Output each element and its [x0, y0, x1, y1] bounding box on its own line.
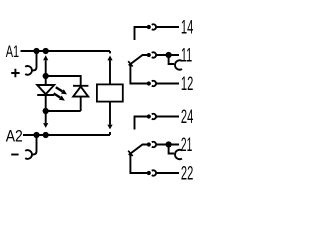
- plug-in arrow LED branch to A2: [45, 111, 47, 123]
- plug contact pin at 21: [147, 142, 151, 146]
- wire A2 rail: [23, 134, 110, 136]
- LED D1 (triangle down): [37, 76, 54, 111]
- movable contact arm (common 21): [129, 145, 147, 155]
- test socket at A2 (arc open left): [25, 150, 32, 159]
- terminal label 24: [181, 106, 193, 128]
- plug contact pin at 12: [147, 81, 151, 85]
- test socket at 11 (arc open right): [175, 60, 182, 69]
- relay coil K1: [97, 84, 123, 101]
- wire 14 to label: [156, 26, 179, 28]
- wire 21 to label: [156, 144, 179, 146]
- polarity label +: [11, 69, 19, 77]
- svg-text:11: 11: [181, 45, 192, 67]
- svg-text:14: 14: [181, 17, 193, 39]
- terminal label A1: [6, 42, 19, 61]
- plug contact pin at 14: [147, 25, 151, 29]
- terminal label A2: [6, 126, 23, 145]
- terminal label 21: [181, 134, 192, 156]
- test socket at 21 (arc open right): [175, 150, 182, 159]
- svg-text:A2: A2: [6, 126, 23, 145]
- terminal label 11: [181, 45, 192, 67]
- terminal label 12: [181, 73, 193, 95]
- node junction on A2 rail (socket branch): [33, 132, 39, 138]
- plug socket arc at 12: [152, 81, 156, 86]
- svg-text:A1: A1: [6, 42, 19, 61]
- node junction on A1 rail (socket branch): [33, 48, 39, 54]
- contact group 1: NO fixed contact stub 14: [135, 27, 148, 40]
- plug-in arrow A1 to coil: [109, 60, 111, 84]
- wire bottom rail of LED/diode parallel: [46, 110, 81, 112]
- wire to test socket 21: [169, 147, 174, 154]
- wire 22 to label: [156, 172, 179, 174]
- node test-socket junction at 21: [166, 141, 172, 147]
- plug contact pin at 24: [147, 114, 151, 118]
- freewheeling diode (triangle up): [73, 86, 88, 111]
- LED emission arrows: [56, 87, 63, 91]
- node bottom of LED branch: [43, 108, 49, 114]
- node test-socket junction at 11: [166, 52, 172, 58]
- movable contact arm (common 11): [129, 55, 147, 65]
- plug contact pin at 11: [147, 53, 151, 57]
- wire 12 to label: [156, 83, 179, 85]
- wire A2 test-socket branch: [32, 137, 36, 155]
- node junction on A1 rail (LED branch): [43, 48, 49, 54]
- wire coil to A2 plug: [109, 102, 111, 125]
- wire top rail of LED/diode parallel: [46, 76, 81, 85]
- wire to test socket 11: [169, 57, 174, 64]
- arm pivot tick: [128, 61, 133, 66]
- NC fixed contact stub 22: [130, 154, 147, 174]
- plug socket arc at 21: [152, 142, 156, 147]
- wire 24 to label: [156, 116, 179, 118]
- wire A1 rail: [21, 50, 111, 52]
- node junction on A2 rail (LED branch): [43, 132, 49, 138]
- svg-text:22: 22: [181, 163, 193, 185]
- wire 11 to label: [156, 54, 179, 56]
- wire A1 test-socket branch: [32, 53, 36, 70]
- svg-text:12: 12: [181, 73, 193, 95]
- contact group 2: NO fixed contact stub 24: [135, 117, 148, 130]
- arm pivot tick: [128, 151, 133, 156]
- node top of LED/diode parallel: [43, 73, 49, 79]
- plug-in arrow A1 to LED branch: [45, 60, 47, 73]
- plug socket arc at 14: [152, 24, 156, 29]
- test socket at A1 (arc open left): [25, 66, 32, 75]
- polarity label minus: [11, 154, 18, 156]
- wire coil branch from A1 rail: [109, 51, 111, 53]
- plug socket arc at 24: [152, 114, 156, 119]
- plug socket arc at 11: [152, 52, 156, 57]
- terminal label 14: [181, 17, 193, 39]
- svg-text:21: 21: [181, 134, 192, 156]
- terminal label 22: [181, 163, 193, 185]
- plug-in arrow coil to A2: [107, 125, 112, 130]
- svg-text:24: 24: [181, 106, 193, 128]
- plug socket arc at 22: [152, 170, 156, 175]
- NC fixed contact stub 12: [130, 64, 147, 84]
- plug contact pin at 22: [147, 171, 151, 175]
